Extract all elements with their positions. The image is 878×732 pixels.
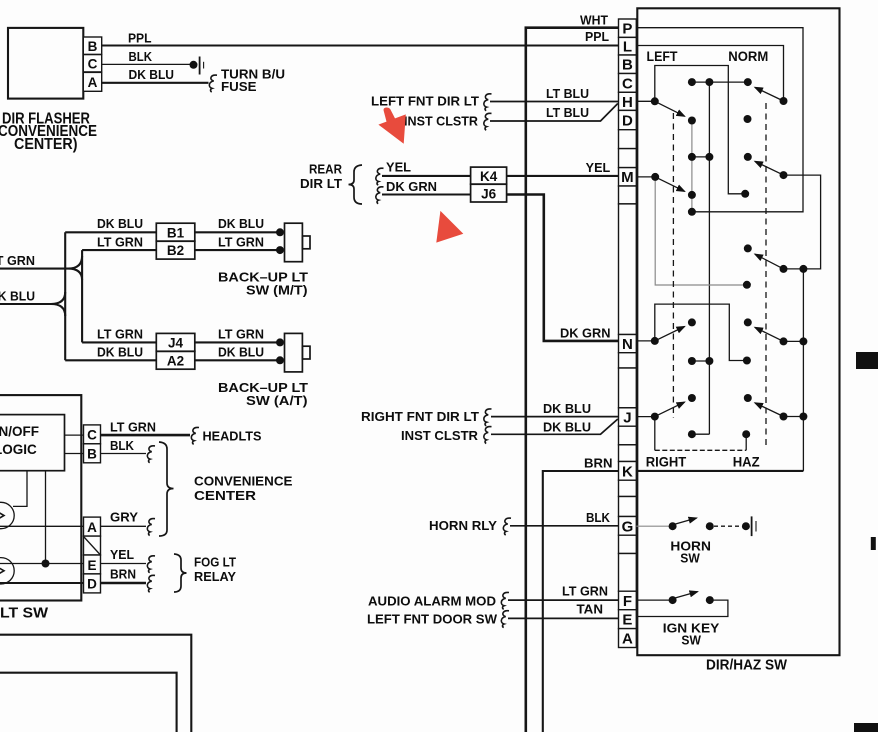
wire pair link row5 — [784, 268, 804, 270]
node junction dot on E wire — [42, 560, 50, 568]
svg-text:P: P — [622, 21, 632, 38]
wire DK BLU B1 to M/T switch — [195, 231, 281, 233]
node terminal dot A2 wire — [276, 356, 284, 364]
wire DK BLU to J pin — [491, 416, 619, 418]
node dot row3 a — [688, 153, 696, 161]
lamp symbol 2 — [0, 558, 14, 584]
pin M — [619, 168, 637, 186]
node dot H pin — [651, 97, 659, 105]
switch body BACK-UP LT SW (M/T) — [285, 223, 303, 262]
annotation red arrow 2 — [436, 211, 463, 243]
svg-text:H: H — [622, 94, 633, 111]
connector K4 — [471, 167, 507, 184]
pin C of U1 — [83, 55, 101, 72]
component U1 DIR FLASHER (CONVENIENCE CENTER) body — [8, 28, 83, 99]
dashed travel line left — [672, 113, 674, 418]
wire DK BLU from left edge into outer trunk — [0, 292, 65, 316]
svg-text:NORM: NORM — [728, 49, 768, 64]
empty cell — [619, 353, 637, 368]
node dot row1 c — [744, 78, 752, 86]
wire WHT trunk top to P pin — [526, 28, 619, 732]
svg-text:LT GRN: LT GRN — [110, 421, 156, 435]
large box corner outer at bottom left — [0, 635, 191, 732]
svg-text:YEL: YEL — [586, 161, 611, 175]
wire DK BLU 2 to J pin with diagonal — [491, 419, 618, 434]
switch arm HAZ row5 — [755, 254, 784, 269]
wire NORM arm connector to right bus — [784, 175, 821, 269]
switch arm H — [655, 101, 685, 116]
svg-text:BLK: BLK — [586, 511, 610, 525]
svg-text:C: C — [88, 57, 98, 72]
svg-text:DK GRN: DK GRN — [560, 327, 611, 341]
wire GRY pin A — [101, 525, 147, 527]
svg-text:L: L — [623, 39, 632, 56]
connector squiggle — [501, 611, 509, 628]
svg-text:K: K — [622, 463, 633, 480]
svg-text:N: N — [622, 336, 633, 353]
wire P feed inside switch — [636, 28, 803, 212]
svg-text:A2: A2 — [167, 353, 184, 368]
connector squiggle — [503, 518, 511, 535]
wire center vertical bus — [708, 82, 710, 434]
switch arm L-NORM — [755, 87, 784, 101]
node dot J pin — [651, 413, 659, 421]
svg-text:LT GRN: LT GRN — [0, 254, 35, 268]
node dot row3 b — [705, 153, 713, 161]
svg-text:LEFT FNT DIR LT: LEFT FNT DIR LT — [371, 95, 479, 109]
svg-text:HORN RLY: HORN RLY — [429, 519, 498, 533]
node dot row1 b — [705, 78, 713, 86]
node dot row3 c — [744, 153, 752, 161]
wire DK BLU A2 to A/T switch — [195, 359, 281, 361]
node dot M-link mid — [743, 281, 751, 289]
wire YEL to K4 — [382, 175, 471, 177]
wire DK BLU branch to A2 — [65, 359, 156, 361]
ign key contact 1 — [669, 596, 677, 604]
ign key arm — [675, 592, 698, 599]
node dot M pin — [651, 173, 659, 181]
pin E of headlamp switch — [84, 555, 101, 574]
wire K feed bottom — [636, 470, 803, 472]
node terminal dot B1 wire — [276, 228, 284, 236]
pin G — [619, 517, 637, 536]
empty cell — [619, 130, 637, 149]
dashed travel line right — [765, 103, 767, 447]
wire pair link row9 — [784, 416, 804, 418]
svg-text:D: D — [87, 577, 97, 592]
wire H pin stub — [636, 100, 655, 102]
wire BLK from U1-C — [102, 63, 194, 65]
connector squiggle GRY — [147, 519, 155, 536]
wire LT GRN to F pin — [508, 599, 619, 601]
pin D — [619, 110, 637, 129]
svg-text:C: C — [622, 75, 633, 92]
large box corner inner at bottom left — [0, 673, 177, 732]
node dot NORM2 arm — [780, 171, 788, 179]
switch arm HAZ row6 — [755, 327, 784, 341]
node dot M target — [688, 191, 696, 199]
svg-text:LEFT: LEFT — [647, 49, 679, 64]
pin A of U1 — [83, 72, 101, 91]
svg-text:A: A — [87, 520, 97, 535]
connector squiggle — [484, 94, 492, 111]
svg-text:D: D — [622, 113, 633, 130]
wire logic to pin C — [65, 434, 84, 436]
node dot HAZ fixed 2 — [744, 394, 752, 402]
node dot P-link — [688, 208, 696, 216]
brace FOG LT RELAY — [174, 554, 187, 592]
svg-text:INST CLSTR: INST CLSTR — [401, 429, 478, 443]
svg-text:REAR: REAR — [309, 163, 342, 177]
wire logic bottom drop to lamp 1 — [13, 471, 27, 507]
wire lamp2 to pin E — [0, 563, 84, 565]
wire BLK pin B — [101, 453, 147, 455]
svg-text:SW: SW — [681, 632, 701, 647]
long empty cell — [619, 368, 637, 408]
svg-text:DK BLU: DK BLU — [218, 346, 264, 360]
page mark black bar bottom right — [854, 723, 878, 732]
svg-text:DK BLU: DK BLU — [543, 421, 591, 435]
ign key contact 2 — [706, 596, 714, 604]
wire LT BLU to H pin — [490, 101, 619, 103]
svg-text:B: B — [622, 57, 633, 74]
empty cell — [619, 186, 637, 204]
node dot N pin — [651, 337, 659, 345]
svg-text:FUSE: FUSE — [221, 80, 257, 94]
node dot row5 fixed — [744, 244, 752, 252]
connector squiggle BRN — [147, 575, 155, 592]
svg-text:B: B — [87, 447, 97, 462]
svg-text:GRY: GRY — [110, 511, 139, 525]
component ON/OFF LOGIC block — [0, 415, 65, 471]
svg-text:SW: SW — [680, 551, 700, 566]
wire PPL from U1-B to L pin — [102, 44, 619, 46]
svg-text:DK BLU: DK BLU — [97, 346, 143, 360]
wire LT BLU 2 to H pin with diagonal — [490, 104, 618, 122]
svg-text:RELAY: RELAY — [194, 569, 236, 584]
svg-text:DIR LT: DIR LT — [300, 177, 342, 191]
wire row7 pair link — [692, 360, 710, 362]
node dot HAZ fixed 1 — [744, 318, 752, 326]
svg-text:SW (M/T): SW (M/T) — [246, 283, 308, 298]
switch arm NORM2 — [755, 161, 784, 175]
svg-text:RIGHT: RIGHT — [646, 455, 687, 470]
connector squiggle at TURN B/U FUSE — [209, 75, 217, 92]
svg-text:LT GRN: LT GRN — [218, 235, 264, 249]
wire YEL pin E — [101, 563, 147, 565]
page mark black bar right — [856, 352, 878, 369]
svg-text:TAN: TAN — [577, 603, 604, 617]
brace CONVENIENCE CENTER — [159, 442, 174, 536]
svg-text:BLK: BLK — [110, 439, 134, 453]
pin F — [619, 591, 637, 610]
wire L feed to NORM contact — [636, 46, 783, 102]
svg-text:DK BLU: DK BLU — [129, 68, 175, 82]
wire logic bottom drop to E wire — [45, 471, 47, 564]
node dot row6 pair b — [799, 337, 807, 345]
pin N — [619, 335, 637, 353]
wire trunk DK BLU vertical — [64, 232, 66, 360]
wire DK GRN to J6 — [382, 193, 471, 195]
svg-text:BRN: BRN — [110, 568, 136, 582]
connector squiggle — [484, 409, 492, 426]
svg-text:CONVENIENCE: CONVENIENCE — [194, 474, 293, 489]
brace for REAR DIR LT — [349, 165, 363, 204]
connector squiggle YEL — [147, 556, 155, 573]
annotation red arrow 1 — [378, 107, 405, 143]
svg-text:INST CLSTR: INST CLSTR — [404, 115, 478, 129]
ground stub bars after BLK splice — [199, 57, 201, 75]
switch arm HAZ row9 — [755, 403, 784, 417]
wire H link to NORM row4 — [655, 66, 745, 194]
connector strip cells — [619, 19, 637, 648]
svg-text:A: A — [88, 75, 98, 90]
svg-text:HEADLTS: HEADLTS — [203, 429, 262, 444]
pin H — [619, 92, 637, 110]
lamp symbol 1 — [0, 502, 14, 528]
node dot row5 pair b — [799, 265, 807, 273]
wire BRN from K pin down page — [543, 471, 619, 732]
connector squiggle BLK — [147, 446, 155, 463]
svg-text:LT GRN: LT GRN — [97, 235, 143, 249]
connector squiggle HEADLTS — [191, 427, 199, 444]
wire to pin D — [0, 582, 84, 584]
svg-text:DK BLU: DK BLU — [97, 217, 143, 231]
wire lamp1 to pin A — [0, 525, 84, 527]
svg-text:PPL: PPL — [585, 30, 609, 44]
pin L — [619, 37, 637, 55]
empty cell — [619, 445, 637, 462]
svg-text:DK GRN: DK GRN — [386, 180, 437, 194]
svg-text:SW (A/T): SW (A/T) — [246, 393, 308, 408]
node dot H target — [688, 117, 696, 125]
svg-text:CENTER: CENTER — [194, 488, 257, 503]
pin B — [619, 55, 637, 74]
svg-text:LT GRN: LT GRN — [562, 585, 608, 599]
node dot row6 pair a — [780, 337, 788, 345]
node terminal dot J4 wire — [276, 338, 284, 346]
page mark small right edge — [871, 537, 876, 550]
pin C of headlamp switch — [84, 425, 101, 444]
wire G pin to horn switch — [636, 525, 672, 527]
svg-text:CENTER): CENTER) — [14, 136, 78, 153]
node dot RIGHT fixed 2 — [688, 394, 696, 402]
wire trunk LT GRN vertical — [81, 250, 83, 342]
svg-text:G: G — [622, 518, 634, 535]
wire LT GRN branch to J4 — [82, 341, 156, 343]
empty cell — [619, 497, 637, 517]
svg-text:LT SW: LT SW — [0, 605, 49, 622]
svg-text:YEL: YEL — [386, 161, 411, 175]
svg-text:DIR/HAZ SW: DIR/HAZ SW — [706, 657, 788, 674]
node dot L NORM arm — [780, 97, 788, 105]
svg-text:F: F — [623, 593, 632, 610]
svg-text:M: M — [621, 169, 634, 186]
svg-text:YEL: YEL — [110, 548, 134, 562]
node dot NORM iso — [744, 115, 752, 123]
connector J4 — [156, 333, 195, 351]
wire LT GRN B2 to M/T switch — [195, 249, 281, 251]
wire LT GRN branch to B2 — [82, 249, 156, 251]
horn ground bars — [751, 516, 753, 536]
wire F pin to ign key switch — [636, 599, 672, 601]
empty cell — [619, 149, 637, 168]
switch arm J — [655, 402, 685, 417]
wire LT GRN pin C to HEADLTS — [101, 434, 191, 437]
pin K — [619, 462, 637, 481]
wire row1 LEFT-NORM — [692, 81, 748, 83]
svg-text:LT GRN: LT GRN — [97, 328, 143, 342]
wire M pin stub — [636, 176, 655, 178]
connector A2 — [156, 351, 195, 369]
wire BLK to G pin — [510, 525, 619, 527]
node dot row7 a — [688, 357, 696, 365]
pin P — [619, 19, 637, 37]
svg-text:BRN: BRN — [584, 457, 613, 471]
empty cell — [619, 480, 637, 496]
empty cell — [619, 426, 637, 445]
svg-text:DK BLU: DK BLU — [218, 217, 264, 231]
wire N pin stub — [636, 340, 655, 342]
wire row3 pair link — [692, 156, 710, 158]
wire LT GRN from left edge into inner trunk — [0, 256, 82, 280]
horn switch contact 2 — [706, 522, 714, 530]
svg-text:DK BLU: DK BLU — [0, 290, 35, 304]
svg-text:LOGIC: LOGIC — [0, 442, 37, 457]
svg-text:LT BLU: LT BLU — [546, 106, 589, 120]
node dot row1 a — [688, 78, 696, 86]
wire pair link row6 — [784, 340, 804, 342]
switch body BACK-UP LT SW (A/T) — [285, 333, 303, 372]
svg-text:LT GRN: LT GRN — [218, 328, 264, 342]
horn switch arm — [675, 518, 697, 524]
pin B of U1 — [83, 37, 101, 54]
wire YEL from K4 to M pin — [507, 175, 619, 177]
pin B of headlamp switch — [84, 444, 101, 463]
long empty cell — [619, 554, 637, 592]
node dot row9 pair a — [780, 413, 788, 421]
pin C — [619, 74, 637, 93]
svg-text:HAZ: HAZ — [733, 455, 760, 470]
svg-text:PPL: PPL — [128, 32, 152, 46]
pin D of headlamp switch — [84, 574, 101, 593]
connector B2 — [156, 241, 195, 259]
wire DK BLU from U1-A to TURN B/U FUSE — [102, 82, 209, 84]
svg-text:C: C — [87, 428, 97, 443]
svg-text:WHT: WHT — [580, 13, 608, 27]
node dot row10 b J-link — [742, 430, 750, 438]
wire logic to pin B — [65, 453, 84, 455]
wire M link gray to mid dot — [655, 177, 747, 285]
empty cell — [619, 535, 637, 553]
svg-text:BLK: BLK — [129, 50, 153, 64]
wire right bus vertical — [802, 269, 804, 471]
wire DK GRN from J6 down to N pin — [507, 195, 619, 341]
connector squiggle DK GRN — [376, 187, 384, 204]
wire TAN to E pin — [508, 617, 619, 619]
node dot row10 a — [688, 430, 696, 438]
svg-text:ON/OFF: ON/OFF — [0, 424, 39, 439]
connector squiggle — [501, 592, 509, 609]
connector B1 — [156, 223, 195, 241]
node terminal dot B2 wire — [276, 246, 284, 254]
wire LT GRN J4 to A/T switch — [195, 341, 281, 343]
component DIR/HAZ SW outer box — [637, 8, 839, 655]
wire N link to HAZ row — [655, 304, 747, 360]
pin A of headlamp switch — [84, 517, 101, 536]
node dot row7 b — [705, 357, 713, 365]
switch arm M — [655, 177, 684, 191]
wire BRN pin D — [101, 582, 147, 585]
connector J6 — [471, 184, 507, 202]
connector squiggle — [484, 427, 492, 444]
svg-text:FOG LT: FOG LT — [194, 555, 236, 570]
svg-text:RIGHT FNT DIR LT: RIGHT FNT DIR LT — [361, 410, 479, 424]
pin E — [619, 610, 637, 629]
node splice on BLK wire — [190, 61, 198, 69]
pin A — [619, 629, 637, 648]
connector squiggle — [484, 113, 492, 130]
wire DK BLU branch to B1 — [65, 231, 156, 233]
component headlamp switch box — [0, 395, 81, 600]
node dot RIGHT fixed 1 — [688, 318, 696, 326]
wire J pin stub — [636, 416, 655, 418]
horn dash link — [714, 525, 742, 527]
switch arm N — [655, 327, 685, 341]
wire left contact column link — [691, 121, 693, 212]
svg-text:J: J — [623, 409, 631, 426]
wire J link below to HAZ dot — [654, 417, 656, 451]
svg-text:K4: K4 — [480, 169, 498, 184]
svg-text:J4: J4 — [168, 335, 184, 350]
node dot row9 pair b — [799, 413, 807, 421]
svg-text:E: E — [87, 558, 96, 573]
wire J link rise — [745, 434, 747, 450]
svg-text:J6: J6 — [481, 187, 497, 202]
svg-text:B: B — [88, 39, 98, 54]
svg-text:A: A — [622, 631, 633, 648]
svg-text:E: E — [622, 612, 632, 629]
horn switch contact 3 — [742, 522, 750, 530]
pin J — [619, 408, 637, 426]
wire row10 link — [692, 433, 710, 435]
svg-text:B1: B1 — [167, 225, 185, 240]
svg-text:LT BLU: LT BLU — [546, 87, 589, 101]
svg-text:AUDIO ALARM MOD: AUDIO ALARM MOD — [368, 595, 496, 609]
svg-text:B2: B2 — [167, 243, 184, 258]
long empty cell — [619, 204, 637, 335]
node dot H-link target — [741, 190, 749, 198]
horn switch contact 1 — [669, 522, 677, 530]
svg-text:DK BLU: DK BLU — [543, 402, 591, 416]
node dot row5 pair a — [780, 265, 788, 273]
keyway cell with diagonal — [84, 536, 101, 555]
svg-text:LEFT FNT DOOR SW: LEFT FNT DOOR SW — [367, 613, 497, 627]
connector squiggle YEL — [376, 168, 384, 185]
wire ign key return to E pin — [636, 600, 728, 616]
node dot N-link target — [743, 357, 751, 365]
